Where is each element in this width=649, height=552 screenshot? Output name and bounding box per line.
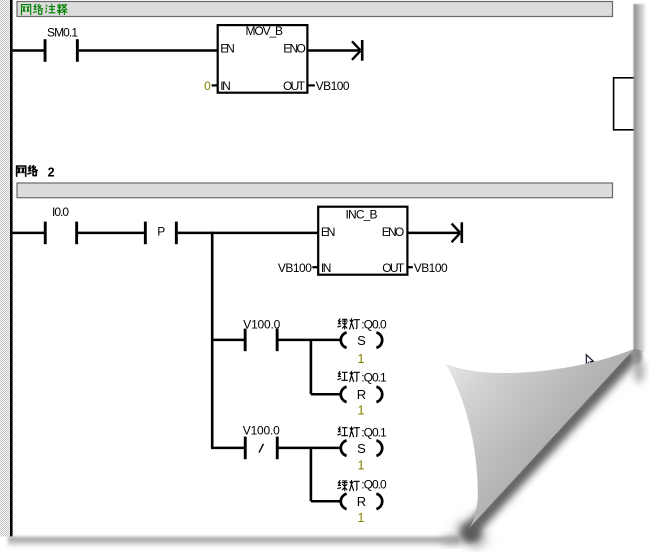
svg-text:S: S bbox=[357, 441, 366, 456]
rung 2 wire to contact V100.0 bbox=[211, 447, 244, 450]
rung 1 wire to S coil bbox=[279, 339, 340, 342]
svg-text:SM0.1: SM0.1 bbox=[47, 26, 78, 40]
wire rail to contact SM0.1 bbox=[13, 49, 45, 52]
network 1 comment bar bbox=[17, 2, 613, 17]
right page edge shadow bbox=[634, 4, 648, 352]
svg-text::Q0.0: :Q0.0 bbox=[361, 318, 387, 332]
contact V100.0 rung 1 bbox=[243, 318, 280, 352]
label 红灯:Q0.1 rung 2 bbox=[338, 426, 387, 440]
svg-text:R: R bbox=[357, 494, 366, 509]
branch vertical wire bbox=[211, 232, 214, 448]
label 绿灯:Q0.0 bbox=[338, 318, 387, 332]
rung 1 wire to contact V100.0 bbox=[211, 339, 244, 342]
reset coil R red lamp bbox=[341, 387, 382, 402]
network 1 comment text 网络注释 bbox=[22, 4, 68, 15]
wire I0.0 to P contact bbox=[78, 232, 144, 235]
wire INC ENO to arrow bbox=[407, 232, 460, 235]
svg-text:2: 2 bbox=[48, 165, 55, 179]
label 绿灯:Q0.0 rung 2 bbox=[338, 478, 387, 492]
svg-text::Q0.0: :Q0.0 bbox=[361, 478, 387, 492]
svg-text:VB100: VB100 bbox=[278, 261, 312, 275]
open branch arrow network 1 bbox=[352, 40, 364, 61]
negated contact V100.0 rung 2 bbox=[243, 424, 280, 460]
clipped element box at right edge bbox=[614, 78, 636, 130]
label 红灯:Q0.1 bbox=[338, 370, 387, 384]
svg-text:IN: IN bbox=[321, 261, 332, 275]
wire P to INC_B EN bbox=[178, 232, 319, 235]
svg-text:R: R bbox=[357, 387, 366, 402]
svg-text:P: P bbox=[157, 224, 165, 238]
svg-text:INC_B: INC_B bbox=[346, 208, 378, 222]
svg-text:1: 1 bbox=[358, 511, 365, 525]
junction vertical to R coil rung 2 bbox=[310, 448, 313, 501]
svg-text:1: 1 bbox=[358, 404, 365, 418]
bottom page edge shadow bbox=[8, 537, 458, 548]
svg-text:V100.0: V100.0 bbox=[243, 424, 280, 438]
svg-text:VB100: VB100 bbox=[316, 79, 350, 93]
svg-text:0: 0 bbox=[204, 79, 211, 93]
svg-text:OUT: OUT bbox=[382, 261, 405, 275]
svg-text:S: S bbox=[357, 333, 366, 348]
contact SM0.1 bbox=[44, 26, 79, 62]
wire to R coil rung 1 bbox=[311, 393, 340, 396]
svg-text:ENO: ENO bbox=[283, 42, 306, 56]
svg-text:1: 1 bbox=[358, 459, 365, 473]
svg-text:VB100: VB100 bbox=[414, 261, 448, 275]
network 2 comment bar bbox=[17, 183, 613, 198]
positive edge contact P bbox=[144, 222, 178, 245]
svg-text:1: 1 bbox=[358, 352, 365, 366]
network 2 label 网络 2 bbox=[17, 165, 55, 179]
svg-text:IN: IN bbox=[220, 79, 231, 93]
wire to R coil rung 2 bbox=[311, 500, 340, 503]
contact I0.0 bbox=[44, 205, 78, 244]
svg-text:EN: EN bbox=[321, 225, 336, 239]
function block MOV_B bbox=[218, 24, 308, 93]
page curl surface bbox=[446, 349, 634, 531]
INC IN pin stub bbox=[312, 266, 318, 268]
svg-text:V100.0: V100.0 bbox=[243, 318, 280, 332]
svg-text:EN: EN bbox=[220, 42, 235, 56]
set coil S green lamp bbox=[341, 332, 382, 347]
mouse cursor bbox=[586, 355, 593, 366]
function block INC_B bbox=[318, 207, 407, 275]
wire contact to MOV_B EN bbox=[79, 49, 218, 52]
svg-text:MOV_B: MOV_B bbox=[246, 24, 284, 38]
wire ENO to arrow bbox=[307, 49, 360, 52]
left gutter hatch bbox=[0, 0, 10, 537]
power rail bbox=[10, 0, 13, 537]
svg-text:ENO: ENO bbox=[382, 225, 405, 239]
OUT pin stub bbox=[307, 84, 314, 86]
page curl shadow along diagonal bbox=[455, 347, 644, 548]
wire rail to contact I0.0 bbox=[13, 232, 44, 235]
IN pin stub bbox=[212, 84, 218, 86]
reset coil R green lamp bbox=[341, 494, 382, 509]
svg-text:I0.0: I0.0 bbox=[52, 205, 69, 219]
open branch arrow network 2 bbox=[452, 222, 464, 243]
junction vertical to R coil rung 1 bbox=[310, 340, 313, 394]
set coil S red lamp bbox=[341, 440, 382, 455]
rung 2 wire to S coil bbox=[279, 447, 340, 450]
svg-text:OUT: OUT bbox=[283, 79, 306, 93]
svg-text::Q0.1: :Q0.1 bbox=[361, 370, 387, 384]
svg-text::Q0.1: :Q0.1 bbox=[361, 426, 387, 440]
INC OUT pin stub bbox=[407, 266, 412, 268]
